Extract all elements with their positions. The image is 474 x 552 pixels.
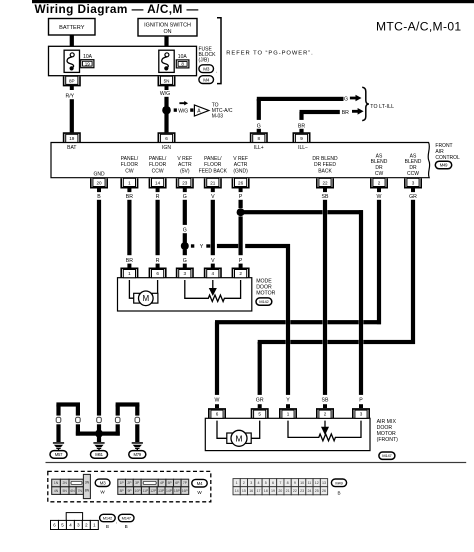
svg-text:ACTR: ACTR [178, 162, 192, 168]
ignition switch box [138, 19, 197, 37]
svg-text:8P: 8P [120, 489, 125, 493]
ground wires below connectors [56, 424, 60, 442]
svg-text:20: 20 [96, 181, 102, 186]
svg-text:19: 19 [69, 136, 75, 141]
connector M3 oval id [95, 479, 110, 486]
pin 21 of M49 [205, 178, 221, 187]
off-page connector A [194, 105, 208, 116]
wire V down [211, 200, 215, 255]
wire R/Y down to 19 [70, 99, 74, 132]
svg-text:20: 20 [278, 489, 282, 493]
svg-text:IGN: IGN [162, 145, 171, 151]
svg-text:2: 2 [378, 181, 381, 186]
junction dot P [237, 208, 245, 216]
svg-text:TO LT-ILL: TO LT-ILL [370, 104, 394, 110]
svg-text:IGNITION SWITCH: IGNITION SWITCH [144, 23, 191, 29]
pin 4 of M142 [211, 264, 215, 268]
svg-text:DR BLEND: DR BLEND [312, 156, 338, 162]
svg-text:1: 1 [128, 181, 131, 186]
wire W vertical to air mix [215, 322, 219, 395]
air mix door motor box [205, 418, 370, 450]
fuse 10A (19) [64, 50, 79, 72]
svg-text:14P: 14P [166, 489, 173, 493]
wire R down [156, 200, 160, 255]
wire G to LT-ILL [257, 97, 344, 101]
connector view M3 grid [52, 479, 61, 487]
pin 26 of M49 [232, 178, 248, 187]
connector 8P [64, 76, 80, 85]
M3 slot [71, 481, 82, 484]
svg-text:2: 2 [324, 412, 327, 417]
wire G down (upper) [183, 200, 187, 225]
wire G below junction [183, 250, 187, 256]
svg-text:V REF: V REF [233, 156, 248, 162]
svg-text:M-03: M-03 [212, 113, 224, 119]
svg-text:AIR MIX: AIR MIX [377, 419, 397, 425]
ground bus right U [116, 402, 140, 406]
svg-text:G: G [183, 258, 187, 264]
svg-text:PANEL/: PANEL/ [204, 156, 222, 162]
connector M4 oval id [192, 479, 207, 487]
svg-text:(5V): (5V) [180, 168, 190, 174]
junction dot G/Y [181, 242, 189, 250]
svg-text:SB: SB [322, 194, 329, 200]
wire W/G down to 6 [164, 97, 168, 133]
svg-text:(J/B): (J/B) [199, 58, 210, 64]
svg-text:GND: GND [93, 171, 105, 177]
svg-text:15P: 15P [174, 489, 181, 493]
svg-text:2: 2 [239, 271, 242, 276]
svg-text:4: 4 [212, 271, 215, 276]
svg-text:SB: SB [322, 398, 329, 404]
wiper arrow pin 4 [210, 280, 216, 295]
svg-text:G: G [183, 194, 187, 200]
svg-text:BAT: BAT [67, 145, 76, 151]
svg-text:2N: 2N [63, 481, 68, 485]
svg-text:Y: Y [200, 244, 204, 250]
svg-text:19: 19 [85, 61, 91, 66]
connector M147 oval id [118, 514, 134, 521]
svg-text:3: 3 [412, 181, 415, 186]
svg-text:7N: 7N [78, 489, 83, 493]
svg-text:6: 6 [216, 412, 219, 417]
connector 6 at control [158, 133, 174, 142]
svg-text:5N: 5N [164, 79, 170, 84]
wire battery to fuse block [70, 35, 74, 46]
svg-text:GR: GR [409, 194, 417, 200]
bracket fuse block section [217, 18, 221, 84]
svg-text:6N: 6N [70, 489, 75, 493]
separator rule [46, 462, 467, 463]
fuse 10A (8) [159, 50, 174, 72]
svg-text:REFER TO “PG-POWER”.: REFER TO “PG-POWER”. [226, 51, 313, 57]
svg-text:8N: 8N [85, 489, 90, 493]
svg-text:BR: BR [298, 124, 305, 130]
svg-text:B: B [125, 524, 128, 529]
battery box [49, 19, 96, 36]
stub into connector 8 [257, 129, 261, 133]
svg-text:19: 19 [271, 489, 275, 493]
branch Y from G junction [191, 244, 194, 247]
svg-text:W: W [197, 490, 202, 495]
svg-text:13P: 13P [158, 489, 165, 493]
ground M57 [53, 442, 64, 444]
svg-text:M4: M4 [197, 481, 203, 486]
M3 tall cell [83, 474, 90, 498]
svg-text:M3: M3 [100, 480, 106, 485]
pin 3 of M147 [359, 404, 363, 408]
potentiometer mode motor [185, 280, 241, 301]
pin 20 of M49 [91, 178, 107, 187]
svg-text:12P: 12P [150, 489, 157, 493]
wire GR horizontal with crossover gaps [258, 340, 286, 344]
svg-text:BATTERY: BATTERY [59, 25, 85, 31]
svg-text:M: M [235, 434, 242, 444]
svg-text:1: 1 [128, 271, 131, 276]
svg-text:22: 22 [322, 181, 328, 186]
svg-text:17: 17 [256, 489, 260, 493]
svg-text:M4: M4 [203, 77, 210, 82]
svg-text:8: 8 [181, 62, 184, 67]
svg-text:M142: M142 [259, 299, 269, 304]
pin 22 of M49 [317, 178, 333, 187]
svg-text:26: 26 [322, 489, 326, 493]
svg-text:8: 8 [287, 481, 289, 485]
svg-text:CW: CW [125, 168, 134, 174]
svg-text:G: G [183, 227, 187, 233]
svg-text:9: 9 [294, 481, 296, 485]
connector M4 oval [199, 76, 214, 84]
junction dot W/G [162, 106, 171, 115]
wire B to ground M61 [97, 434, 101, 442]
svg-text:AIR: AIR [435, 149, 444, 155]
connector view M142/M147 [66, 513, 82, 521]
svg-text:M3: M3 [203, 66, 210, 71]
svg-text:6: 6 [156, 271, 159, 276]
svg-text:GR: GR [256, 398, 264, 404]
svg-text:ILL+: ILL+ [254, 145, 264, 151]
pin 2 of M142 [239, 264, 243, 268]
wire BR down [127, 200, 131, 255]
connector M142 oval id [100, 514, 116, 521]
svg-text:PANEL/: PANEL/ [121, 156, 139, 162]
svg-text:21: 21 [286, 489, 290, 493]
svg-text:3: 3 [184, 271, 187, 276]
branch W/G to MTC-A/C M-03 [174, 108, 177, 111]
motor M symbol [134, 293, 140, 303]
svg-text:ACTR: ACTR [234, 162, 248, 168]
arrow G [350, 95, 362, 102]
connector M49 oval id [331, 479, 346, 487]
wire SB down [323, 200, 327, 395]
air mix motor internal wiring [217, 421, 260, 439]
svg-text:R/Y: R/Y [65, 93, 74, 99]
svg-text:FEED BACK: FEED BACK [199, 168, 228, 174]
fuse block (J/B) box [49, 46, 197, 75]
motor M symbol air mix [227, 433, 233, 443]
svg-text:4N: 4N [54, 489, 59, 493]
svg-text:BR: BR [126, 194, 133, 200]
pin 1 of M142 [127, 264, 131, 268]
svg-text:DOOR: DOOR [377, 425, 393, 431]
brace [362, 87, 369, 120]
inline connectors on ground wires [56, 417, 61, 422]
svg-text:11: 11 [308, 481, 312, 485]
svg-text:ON: ON [163, 29, 171, 35]
svg-text:1N: 1N [54, 481, 59, 485]
svg-text:3: 3 [250, 481, 252, 485]
svg-text:16: 16 [249, 489, 253, 493]
svg-text:R: R [156, 194, 160, 200]
svg-text:P: P [239, 194, 243, 200]
svg-text:B: B [106, 524, 109, 529]
connector 9 at control [293, 133, 309, 142]
pin 2 of M147 [323, 404, 327, 408]
svg-text:5P: 5P [168, 481, 173, 485]
svg-text:6: 6 [165, 136, 168, 141]
pin 5 of M147 [258, 404, 262, 408]
svg-text:Wiring Diagram — A/C,M —: Wiring Diagram — A/C,M — [35, 2, 199, 16]
svg-text:M79: M79 [134, 452, 142, 457]
svg-text:W: W [100, 490, 105, 495]
svg-text:B: B [97, 194, 101, 200]
svg-text:MTC-A/C,M-01: MTC-A/C,M-01 [376, 20, 462, 34]
svg-text:24: 24 [307, 489, 311, 493]
svg-text:FLOOR: FLOOR [121, 162, 139, 168]
branch P vertical x=361 [359, 210, 363, 395]
pin 1 of M49 [121, 178, 137, 187]
svg-text:B: B [337, 491, 340, 496]
svg-text:23: 23 [300, 489, 304, 493]
connector M49 oval [435, 161, 451, 169]
svg-text:V: V [211, 258, 215, 264]
svg-text:3N: 3N [85, 481, 90, 485]
svg-text:FLOOR: FLOOR [149, 162, 167, 168]
page top rule [32, 0, 474, 3]
pin 1 of M147 [286, 404, 290, 408]
svg-text:,: , [116, 519, 117, 524]
wiper arrow pin 2 air mix [322, 421, 328, 434]
wire G to junction [183, 233, 187, 242]
svg-text:5: 5 [265, 481, 267, 485]
branch Y vertical x=288 [286, 244, 290, 395]
svg-text:4P: 4P [160, 481, 165, 485]
svg-text:.: . [216, 68, 217, 74]
pin 3 of M142 [183, 264, 187, 268]
svg-text:7: 7 [279, 481, 281, 485]
svg-text:CONTROL: CONTROL [435, 155, 460, 161]
svg-text:4: 4 [257, 481, 259, 485]
svg-text:W: W [377, 194, 382, 200]
svg-text:5: 5 [258, 412, 261, 417]
svg-text:10: 10 [300, 481, 304, 485]
svg-text:2: 2 [243, 481, 245, 485]
svg-text:DR FEED: DR FEED [314, 162, 336, 168]
wire BR to LT-ILL [300, 110, 340, 114]
svg-text:BR: BR [126, 258, 133, 264]
svg-text:8P: 8P [69, 79, 75, 84]
svg-text:Y: Y [286, 398, 290, 404]
svg-text:2P: 2P [127, 481, 132, 485]
branch P to air mix: horizontal [241, 210, 323, 214]
wire B down [97, 200, 101, 416]
svg-text:14: 14 [155, 181, 161, 186]
svg-text:M49: M49 [440, 163, 448, 168]
svg-text:14: 14 [235, 489, 239, 493]
svg-text:12: 12 [315, 481, 319, 485]
connector view M4 grid [118, 479, 126, 487]
svg-text:MOTOR: MOTOR [256, 291, 275, 297]
ground bus bottom horizontal [76, 432, 120, 436]
wire W down to corner [377, 200, 381, 324]
potentiometer air mix [288, 421, 361, 441]
wire W horizontal with crossover gaps [215, 320, 286, 324]
pin 6 of M147 [215, 404, 219, 408]
wire GR vertical to air mix [258, 342, 262, 395]
svg-text:G: G [344, 97, 348, 103]
svg-text:18: 18 [264, 489, 268, 493]
ground M79 [132, 442, 143, 444]
svg-text:3: 3 [360, 412, 363, 417]
svg-text:MOTOR: MOTOR [377, 431, 396, 437]
svg-text:10A: 10A [178, 54, 188, 60]
stub into connector 9 [299, 129, 303, 133]
svg-text:M57: M57 [55, 452, 63, 457]
svg-text:5N: 5N [63, 489, 68, 493]
svg-text:PANEL/: PANEL/ [149, 156, 167, 162]
connector 19 at control [64, 133, 80, 142]
svg-text:M147: M147 [382, 453, 392, 458]
svg-text:P: P [359, 398, 363, 404]
svg-text:(GND): (GND) [233, 168, 248, 174]
pin 23 of M49 [177, 178, 193, 187]
connector 5N [158, 76, 174, 85]
svg-text:1: 1 [236, 481, 238, 485]
pin 14 of M49 [149, 178, 165, 187]
svg-text:6: 6 [272, 481, 274, 485]
dashed connector-view box [48, 471, 211, 501]
direction arrow [179, 101, 188, 105]
svg-text:22: 22 [293, 489, 297, 493]
svg-text:W/G: W/G [160, 91, 170, 97]
svg-text:16P: 16P [182, 489, 189, 493]
svg-text:DOOR: DOOR [256, 285, 272, 291]
wire P upper [239, 200, 243, 208]
ground bus left U [56, 402, 80, 406]
front air control unit box [51, 143, 430, 178]
svg-text:MODE: MODE [256, 279, 272, 285]
svg-text:CW: CW [375, 171, 384, 177]
wire GR down to corner [411, 200, 415, 344]
connector view M49 grid [233, 479, 240, 487]
junction dot B [95, 430, 103, 438]
mode motor M internal wiring [129, 280, 158, 298]
svg-text:9P: 9P [128, 489, 133, 493]
svg-text:1: 1 [287, 412, 290, 417]
svg-text:3P: 3P [135, 481, 140, 485]
svg-text:FRONT: FRONT [435, 143, 452, 149]
connector 8 at control [251, 133, 267, 142]
svg-text:M49: M49 [335, 480, 343, 485]
svg-text:W: W [215, 398, 220, 404]
wire ignition to fuse block [164, 36, 168, 46]
svg-text:(FRONT): (FRONT) [377, 437, 399, 443]
svg-text:6P: 6P [175, 481, 180, 485]
svg-text:M147: M147 [122, 515, 132, 520]
svg-text:M61: M61 [95, 452, 103, 457]
svg-text:CCW: CCW [407, 171, 419, 177]
svg-text:ILL−: ILL− [298, 145, 308, 151]
svg-text:P: P [239, 258, 243, 264]
svg-text:FLOOR: FLOOR [204, 162, 222, 168]
svg-text:7P: 7P [183, 481, 188, 485]
pin 3 of M49 [405, 178, 421, 187]
svg-text:W/G: W/G [178, 108, 188, 114]
connector M147 oval [379, 452, 395, 459]
svg-text:11P: 11P [142, 489, 149, 493]
wire P below junction [239, 216, 243, 255]
connector M3 oval [199, 65, 214, 73]
svg-text:BR: BR [342, 110, 349, 116]
svg-text:1P: 1P [120, 481, 125, 485]
svg-text:26: 26 [238, 181, 244, 186]
svg-text:BACK: BACK [318, 168, 332, 174]
svg-text:10P: 10P [134, 489, 141, 493]
svg-text:25: 25 [315, 489, 319, 493]
svg-text:M: M [142, 294, 149, 303]
svg-text:G: G [257, 124, 261, 130]
svg-text:8: 8 [258, 136, 261, 141]
svg-text:V REF: V REF [177, 156, 192, 162]
svg-text:V: V [211, 194, 215, 200]
arrow BR [352, 108, 364, 115]
svg-text:R: R [156, 258, 160, 264]
svg-text:CCW: CCW [152, 168, 164, 174]
pin 6 of M142 [156, 264, 160, 268]
connector M142 oval [256, 298, 272, 305]
svg-text:15: 15 [242, 489, 246, 493]
mode door motor box [118, 278, 252, 311]
svg-text:13: 13 [322, 481, 326, 485]
svg-text:M142: M142 [103, 515, 113, 520]
pin 2 of M49 [371, 178, 387, 187]
svg-text:21: 21 [210, 181, 216, 186]
svg-text:9: 9 [300, 136, 303, 141]
svg-text:23: 23 [182, 181, 188, 186]
ground M61 [93, 442, 104, 444]
